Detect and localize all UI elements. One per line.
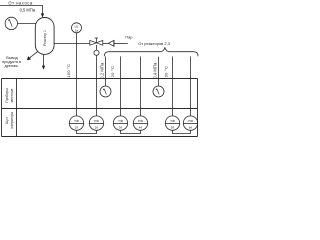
wire: tap line down to panel	[96, 55, 98, 116]
svg-text:Реактор 1: Реактор 1	[43, 30, 47, 46]
table: instrument chart borders	[2, 79, 198, 137]
arrow: product outlet	[27, 56, 31, 60]
wire: drain outlet vertical	[43, 54, 45, 66]
wire: gauge to vessel	[18, 23, 37, 25]
link C-D	[121, 130, 141, 133]
wire: line to local gauge 1	[105, 56, 107, 86]
svg-text:Щит: Щит	[5, 117, 9, 124]
svg-text:От реакторов 2,3: От реакторов 2,3	[138, 41, 171, 46]
row label: Приборы местные	[5, 88, 14, 103]
svg-text:2б: 2б	[95, 126, 99, 130]
panel instrument B	[89, 116, 103, 130]
wire: steam pipe vessel to valve	[54, 43, 90, 45]
wire: line to panel instrument D	[140, 56, 142, 116]
svg-text:3б: 3б	[119, 126, 123, 130]
wire: valve tap stem	[96, 45, 98, 50]
svg-text:30 °С: 30 °С	[164, 66, 169, 78]
panel instrument D	[133, 116, 147, 130]
valve: steam control valve	[90, 38, 103, 45]
svg-text:0,4 МПа: 0,4 МПа	[152, 62, 157, 79]
wire: line to local gauge 2	[158, 57, 160, 86]
gauge PI1: pressure gauge circle	[5, 17, 17, 29]
svg-text:Пар: Пар	[125, 35, 132, 40]
vessel: reactor 1	[35, 18, 54, 55]
panel instrument F	[183, 116, 197, 130]
panel instrument C	[113, 116, 127, 130]
wire: line to panel instrument F	[190, 56, 192, 116]
svg-text:местные: местные	[10, 89, 14, 103]
svg-text:TIR: TIR	[118, 119, 124, 123]
svg-text:PIR: PIR	[138, 119, 144, 123]
svg-text:150 °С: 150 °С	[66, 64, 71, 78]
row label: Щит оператора	[5, 112, 14, 129]
svg-text:От насоса: От насоса	[8, 0, 33, 5]
wire: product outlet diagonal	[30, 51, 38, 57]
svg-text:1б: 1б	[75, 126, 79, 130]
wire: line to panel instrument C	[120, 56, 122, 116]
link E-F	[173, 130, 191, 133]
wire: pipe valve to check valve	[103, 43, 109, 45]
panel instrument E	[165, 116, 179, 130]
svg-text:5б: 5б	[171, 126, 175, 130]
arrow: drain outlet	[42, 66, 45, 70]
check valve	[108, 40, 114, 46]
local gauge 1	[100, 86, 111, 97]
svg-text:0,2 МПа: 0,2 МПа	[100, 62, 105, 79]
arrow: feed into reactor top	[41, 13, 44, 17]
instrument LE1a: sensor circle on vessel line	[72, 23, 82, 33]
svg-text:PIR: PIR	[188, 119, 194, 123]
svg-text:Приборы: Приборы	[5, 88, 9, 103]
svg-text:дренаж: дренаж	[5, 64, 19, 68]
svg-text:0,5 МПа: 0,5 МПа	[20, 8, 36, 13]
svg-text:TIR: TIR	[74, 119, 80, 123]
svg-text:TIR: TIR	[170, 119, 176, 123]
link A-B	[77, 130, 97, 133]
svg-text:1а: 1а	[75, 28, 79, 32]
wire: steam supply line	[114, 43, 128, 45]
sampling device: small circle	[94, 50, 99, 55]
wire: line to panel instrument E	[172, 56, 174, 116]
brace: group of lines from reactors 2,3	[104, 48, 198, 57]
local gauge 2	[153, 86, 164, 97]
wire: feed pipe from pump	[0, 6, 43, 15]
svg-text:4б: 4б	[139, 126, 143, 130]
label: Вывод продукта в дренаж	[2, 56, 21, 68]
svg-text:6б: 6б	[189, 126, 193, 130]
gauge PI1 needle	[8, 19, 12, 26]
svg-text:PIR: PIR	[94, 119, 100, 123]
panel instrument A	[69, 116, 83, 130]
wire: sensor line down to panel	[76, 33, 78, 116]
svg-text:оператора: оператора	[10, 112, 14, 129]
svg-text:20 °С: 20 °С	[110, 66, 115, 78]
